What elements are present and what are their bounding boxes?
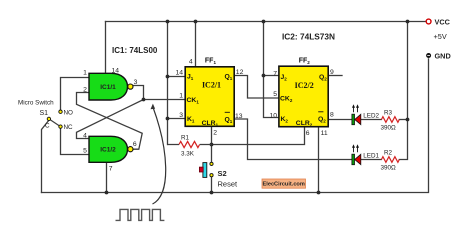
svg-text:1: 1 (179, 93, 183, 100)
svg-text:9: 9 (330, 69, 334, 76)
svg-text:LED2: LED2 (363, 113, 379, 120)
NAND gate IC1/2 (89, 136, 133, 162)
ElecCircuit.com badge (262, 179, 306, 188)
wire IC1/2 pin 7 to ground (106, 162, 108, 193)
svg-text:1: 1 (83, 70, 87, 77)
flip-flop IC2/1 box (185, 67, 234, 128)
svg-text:R3: R3 (384, 110, 393, 117)
svg-text:IC1/2: IC1/2 (100, 147, 116, 154)
svg-text:11: 11 (321, 130, 328, 137)
svg-text:4: 4 (83, 133, 87, 140)
wire CLR1 pin 2 to reset node (211, 126, 213, 163)
svg-text:VCC: VCC (435, 18, 451, 27)
svg-text:+5V: +5V (434, 32, 447, 41)
svg-text:10: 10 (269, 112, 277, 119)
wire R3 right lead (399, 119, 407, 121)
svg-text:Reset: Reset (218, 180, 239, 189)
svg-text:13: 13 (235, 113, 243, 120)
wire CLR2 pin 6 to reset node (212, 127, 305, 145)
resistor R1 3.3K (168, 135, 212, 158)
VCC terminal (426, 18, 450, 42)
svg-text:LED1: LED1 (363, 153, 379, 160)
svg-text:Micro Switch: Micro Switch (18, 100, 54, 107)
wire VCC vertical branch to J1/K1/R1 (167, 22, 169, 145)
svg-text:390Ω: 390Ω (381, 125, 397, 132)
resistor R2 390ohm (381, 150, 400, 172)
wire S2 to ground rail (211, 176, 213, 193)
NAND gate IC1/1 (89, 73, 133, 100)
svg-text:NC: NC (64, 124, 74, 131)
contact NO (59, 110, 62, 113)
wire IC1/1 output to IC1/2 pin 4 (cross coupling) (77, 100, 144, 139)
svg-text:S2: S2 (218, 169, 227, 178)
svg-text:8: 8 (330, 111, 334, 118)
svg-text:IC2/1: IC2/1 (202, 81, 221, 90)
wire FF2 pin 11 to ground (318, 127, 320, 193)
wire Q2bar pin 8 to LED2 (328, 119, 352, 121)
svg-text:2: 2 (213, 130, 217, 137)
svg-text:IC1/1: IC1/1 (100, 84, 116, 91)
IC1 gate pin numbers (83, 68, 138, 173)
wire VCC vertical to R3/R2 (399, 22, 407, 160)
contact C (47, 117, 50, 120)
resistor R3 390ohm (381, 110, 400, 132)
wire Q1 pin 12 to CK2 pin 5 (234, 76, 279, 99)
square wave symbol (116, 209, 165, 220)
wire IC1/1 pin 1 to NO contact (61, 78, 90, 110)
wire IC1/1 pin 14 drop from rail (105, 22, 107, 74)
flip-flop IC2/2 box (279, 66, 328, 127)
wire FF1 pin 4 from rail (195, 22, 197, 67)
wire LED2 to R3 (361, 119, 382, 121)
svg-text:IC2/2: IC2/2 (295, 81, 314, 90)
svg-text:4: 4 (189, 59, 193, 66)
wire top VCC rail (106, 21, 427, 23)
svg-text:390Ω: 390Ω (381, 165, 397, 172)
svg-text:5: 5 (273, 91, 277, 98)
svg-text:14: 14 (112, 68, 120, 75)
svg-text:R1: R1 (181, 135, 190, 142)
LED1 (352, 144, 380, 164)
wire switch common to ground rail (42, 120, 49, 192)
svg-text:6: 6 (133, 141, 137, 148)
switch lever C-NC (49, 119, 61, 127)
wire J1 pin 14 branch (168, 76, 186, 78)
LED2 (352, 104, 380, 124)
wire K1 pin 3 branch (168, 118, 186, 120)
wire bottom ground rail (42, 59, 429, 193)
svg-text:2: 2 (83, 87, 87, 94)
junction node dots (105, 20, 410, 195)
svg-text:GND: GND (435, 52, 451, 61)
IC2/1 pin numbers (175, 59, 243, 137)
micro switch S1 (18, 100, 73, 132)
svg-text:14: 14 (175, 70, 183, 77)
svg-text:6: 6 (306, 130, 310, 137)
wire IC1/2 pin 5 to NC contact (61, 128, 90, 154)
curved arrow pointing to IC1/1 output node (151, 104, 166, 204)
svg-text:R2: R2 (384, 150, 393, 157)
svg-text:3: 3 (134, 79, 138, 86)
wire VCC vertical branch to J2/K2 (264, 22, 279, 118)
push button S2 Reset (199, 162, 238, 188)
svg-text:5: 5 (83, 148, 87, 155)
svg-text:NO: NO (64, 109, 74, 116)
svg-text:C: C (45, 123, 50, 130)
svg-text:IC1: 74LS00: IC1: 74LS00 (112, 46, 158, 55)
svg-text:7: 7 (109, 166, 113, 173)
wire LED1 to R2 (361, 159, 382, 161)
wire IC1/1 output to CK1 (133, 86, 185, 100)
contact NC (59, 125, 62, 128)
wire Q2 pin 9 stub (328, 75, 342, 77)
svg-text:7: 7 (273, 71, 277, 78)
svg-text:IC2: 74LS73N: IC2: 74LS73N (282, 32, 335, 42)
svg-text:3.3K: 3.3K (181, 151, 195, 158)
svg-text:3: 3 (179, 112, 183, 119)
wire Q1bar pin 13 to LED1 (234, 119, 352, 160)
IC2/2 pin numbers (269, 69, 334, 137)
GND terminal (426, 52, 451, 61)
svg-text:12: 12 (236, 69, 244, 76)
svg-text:ElecCircuit.com: ElecCircuit.com (263, 182, 305, 188)
wire J2 pin 7 branch (264, 75, 279, 77)
svg-text:S1: S1 (40, 110, 49, 117)
wire IC1/2 output to IC1/1 pin 2 (cross coupling) (77, 93, 143, 150)
